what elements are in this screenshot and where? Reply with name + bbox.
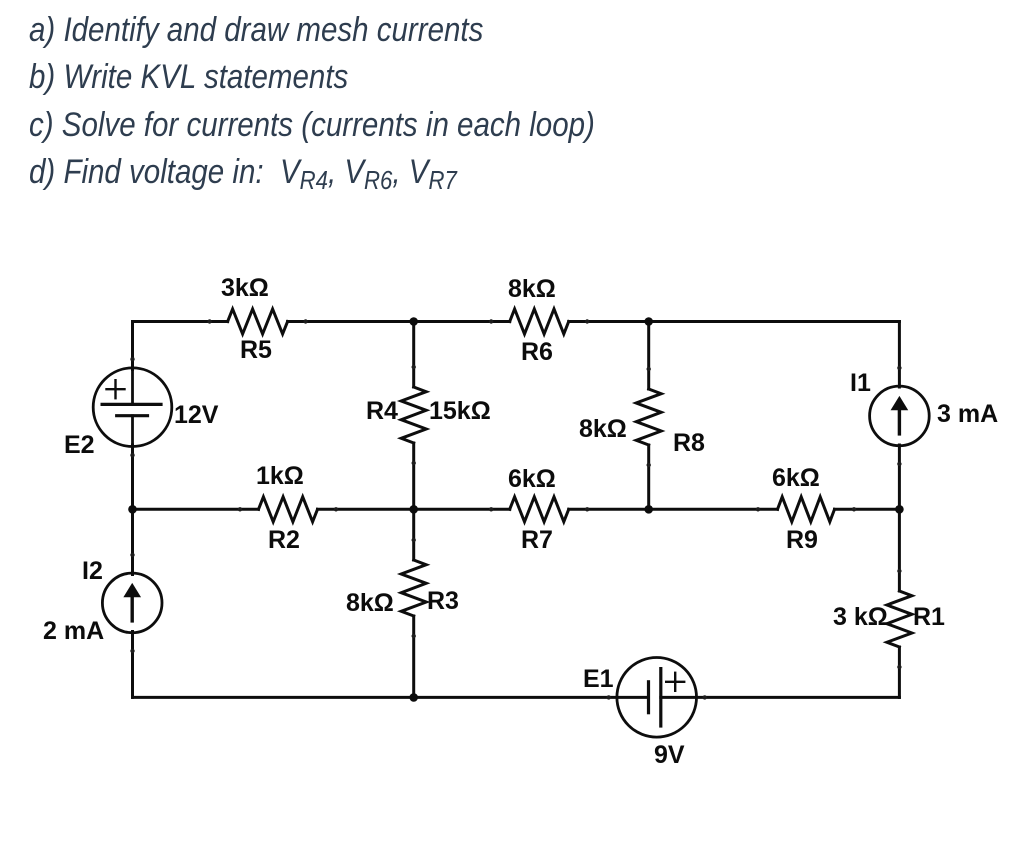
wire bottom rail: E1 to right corner	[661, 696, 900, 699]
wire branch R4: R4 to middle node M0	[412, 443, 415, 509]
wire middle rail: R2 to node M1	[318, 508, 510, 511]
svg-text:6kΩ: 6kΩ	[772, 464, 820, 492]
junction node R3/bottom rail	[409, 693, 418, 702]
resistor R3 8kOhm (vertical)	[401, 560, 426, 616]
resistor R8 8kOhm (vertical)	[636, 389, 661, 445]
svg-text:R4: R4	[366, 397, 398, 425]
svg-text:9V: 9V	[654, 741, 685, 769]
wire branch R8: R8 to middle node M1	[647, 445, 650, 509]
wire left rail: I2 to bottom corner	[131, 632, 134, 698]
svg-text:6kΩ: 6kΩ	[508, 465, 556, 493]
wire middle rail: left node to R2	[133, 508, 259, 511]
wire middle rail: node M1 to R9	[569, 508, 778, 511]
svg-text:8kΩ: 8kΩ	[508, 275, 556, 303]
resistor R5 3kOhm (top left)	[228, 309, 288, 334]
resistor R4 15kOhm (vertical)	[401, 387, 426, 443]
svg-text:R5: R5	[240, 336, 272, 364]
question text block	[29, 7, 595, 197]
wire branch R3: node M0 to R3	[412, 509, 415, 560]
wire left rail: middle node to I2	[131, 509, 134, 574]
svg-text:3 mA: 3 mA	[937, 400, 998, 428]
svg-text:15kΩ: 15kΩ	[429, 397, 491, 425]
junction node T2 (R8/top rail)	[644, 317, 653, 326]
svg-text:R1: R1	[913, 603, 945, 631]
wire right rail: middle node to R1	[898, 509, 901, 591]
wire right rail: R1 to bottom corner	[898, 647, 901, 697]
svg-text:R3: R3	[427, 587, 459, 615]
svg-text:E1: E1	[583, 665, 614, 693]
svg-text:2 mA: 2 mA	[43, 617, 104, 645]
svg-text:R7: R7	[521, 526, 553, 554]
svg-text:8kΩ: 8kΩ	[346, 589, 394, 617]
wire middle rail: R9 to right node	[835, 508, 900, 511]
svg-text:R6: R6	[521, 338, 553, 366]
wire bottom rail: left corner to E1	[133, 696, 649, 699]
wire top rail: R5 to node T1	[288, 320, 510, 323]
resistor R9 6kOhm (middle right)	[778, 497, 835, 522]
wire top rail: left corner to R5	[133, 320, 228, 323]
wire right rail: I1 to middle node	[898, 445, 901, 509]
current source I2 2mA (arrow in circle)	[102, 573, 162, 633]
svg-text:1kΩ: 1kΩ	[256, 462, 304, 490]
resistor R7 6kOhm (middle)	[510, 497, 569, 522]
svg-text:R8: R8	[673, 429, 705, 457]
wire left rail: top corner down to E2	[131, 322, 134, 370]
junction node T1 (R4/top rail)	[409, 317, 418, 326]
junction node left/middle rail	[128, 505, 137, 514]
svg-text:I2: I2	[82, 557, 103, 585]
wire left rail: E2 to middle node	[131, 445, 134, 509]
svg-text:R9: R9	[786, 526, 818, 554]
junction node M1 (R8/middle rail)	[644, 505, 653, 514]
wire top rail: node T1 through node T2 to right corner	[569, 320, 900, 323]
wire branch R3: R3 to bottom node	[412, 616, 415, 697]
wire branch R4: node T1 to R4	[412, 322, 415, 388]
svg-text:3 kΩ: 3 kΩ	[833, 603, 888, 631]
svg-text:E2: E2	[64, 431, 95, 459]
svg-text:12V: 12V	[174, 401, 219, 429]
resistor R1 3kOhm (vertical right)	[887, 591, 912, 647]
junction node M0 (R4-R3/middle rail)	[409, 505, 418, 514]
voltage source E2 12V (battery in circle)	[93, 368, 172, 447]
junction node right/middle rail	[895, 505, 904, 514]
svg-text:8kΩ: 8kΩ	[579, 415, 627, 443]
wire right rail: top corner to I1	[898, 322, 901, 388]
wire branch R8: node T2 to R8	[647, 322, 650, 390]
resistor R2 1kOhm (middle left)	[259, 497, 318, 522]
voltage source E1 9V (battery in circle, horizontal)	[617, 658, 697, 738]
terminal pin marks	[130, 319, 901, 699]
svg-text:R2: R2	[268, 526, 300, 554]
resistor R6 8kOhm (top)	[510, 309, 569, 334]
svg-text:3kΩ: 3kΩ	[221, 274, 269, 302]
svg-text:I1: I1	[850, 369, 871, 397]
current source I1 3mA (arrow in circle)	[870, 386, 930, 446]
